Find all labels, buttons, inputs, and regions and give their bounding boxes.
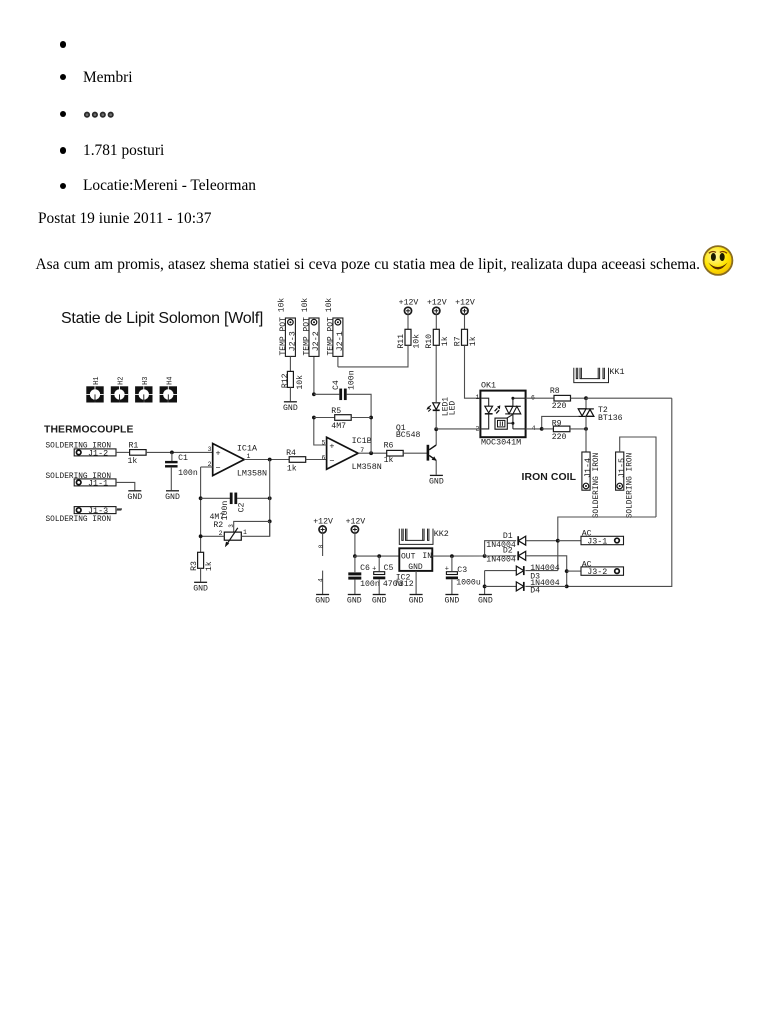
connector J3-1	[581, 536, 624, 544]
wire AC1 to J3-1	[558, 540, 581, 542]
svg-text:GND: GND	[409, 597, 424, 606]
wire D1 D2 left vertical	[485, 541, 517, 556]
svg-text:H2: H2	[118, 376, 126, 384]
ground J1-1	[128, 490, 141, 492]
ground C5	[373, 594, 386, 596]
heatsink KK2	[399, 529, 433, 545]
svg-text:220: 220	[552, 433, 567, 442]
svg-text:D1: D1	[503, 532, 513, 541]
svg-text:SOLDERING IRON: SOLDERING IRON	[593, 452, 601, 518]
wire bus A to AC1 node	[558, 517, 656, 571]
wire R12 to ground	[289, 387, 291, 401]
wire J2-3 to R12	[289, 356, 291, 371]
svg-text:H1: H1	[93, 376, 101, 384]
svg-text:+: +	[216, 448, 221, 458]
svg-text:SOLDERING IRON: SOLDERING IRON	[46, 516, 112, 524]
wire IC1A pin2	[201, 466, 213, 468]
svg-text:R5: R5	[331, 407, 341, 416]
svg-text:BT136: BT136	[598, 414, 623, 423]
wire Q1 collector	[435, 429, 437, 445]
wire T2 top node to right bus	[586, 397, 672, 399]
junction R5 right	[369, 416, 373, 420]
wire J1-1 to ground	[116, 482, 135, 490]
svg-text:R7: R7	[453, 336, 462, 346]
mounting hole H1	[86, 376, 103, 402]
svg-text:1k: 1k	[440, 336, 450, 346]
svg-text:GND: GND	[478, 597, 493, 606]
trimmer R2	[210, 513, 248, 547]
svg-text:3: 3	[208, 446, 212, 453]
junction R2 pin2	[199, 534, 203, 538]
ground Q1	[430, 474, 443, 476]
transistor Q1	[396, 424, 437, 461]
svg-text:10k: 10k	[412, 334, 422, 349]
diode D1	[518, 536, 526, 545]
wire IC1A output	[244, 459, 289, 461]
svg-text:IN: IN	[422, 552, 432, 561]
wire inverting node vertical	[200, 467, 202, 552]
connector J1-3	[74, 507, 116, 514]
capacitor C6	[354, 556, 356, 572]
wire +12V to OUT line	[354, 533, 356, 556]
mounting hole H4	[160, 376, 177, 402]
svg-text:+12V: +12V	[399, 299, 419, 308]
svg-text:1k: 1k	[204, 561, 214, 571]
wire C1 to ground	[170, 467, 172, 490]
svg-text:1000u: 1000u	[456, 579, 481, 588]
ground C3	[445, 594, 458, 596]
optocoupler OK1	[475, 381, 535, 448]
svg-text:7812: 7812	[394, 580, 414, 589]
svg-text:IC1B: IC1B	[352, 436, 372, 446]
svg-text:C3: C3	[457, 566, 467, 575]
svg-text:D4: D4	[530, 587, 540, 596]
svg-text:4M7: 4M7	[331, 422, 346, 431]
svg-text:J2-2: J2-2	[311, 331, 321, 351]
smiley emoticon	[702, 245, 735, 278]
svg-text:SOLDERING IRON: SOLDERING IRON	[627, 452, 635, 518]
svg-text:1k: 1k	[468, 336, 478, 346]
connector J1-5	[616, 452, 624, 490]
resistor R10	[433, 329, 439, 345]
connector J2-2	[309, 318, 319, 356]
ground IC1 power	[316, 594, 329, 596]
wire OK1 pin6 to R8	[526, 397, 554, 399]
wire T2 node to J1-4	[585, 429, 587, 452]
svg-text:GND: GND	[347, 597, 362, 606]
wire +12V to R10	[435, 314, 437, 329]
svg-text:R8: R8	[550, 387, 560, 396]
ground R12	[284, 401, 297, 403]
svg-text:GND: GND	[127, 493, 142, 502]
resistor R12	[287, 371, 293, 387]
svg-text:−: −	[329, 457, 334, 467]
wire T2 gate	[542, 416, 579, 429]
resistor R1	[130, 450, 147, 456]
wire D3 to AC1 vertical	[525, 570, 557, 572]
wire C4 row left	[314, 393, 339, 395]
svg-text:R6: R6	[384, 441, 394, 450]
mounting hole H2	[111, 376, 128, 402]
junction C5 top	[377, 554, 381, 558]
mounting hole H3	[135, 376, 152, 402]
svg-text:R12: R12	[281, 373, 290, 388]
connector J2-3	[285, 318, 295, 356]
svg-text:C1: C1	[178, 454, 188, 463]
svg-text:1k: 1k	[287, 464, 297, 474]
svg-text:R4: R4	[286, 449, 296, 458]
svg-text:10k: 10k	[301, 298, 310, 313]
wire R2 wiper	[234, 521, 270, 532]
svg-text:THERMOCOUPLE: THERMOCOUPLE	[44, 425, 134, 436]
wire LED cathode to collector	[435, 411, 437, 430]
resistor R7	[462, 329, 468, 345]
regulator IC2 7812	[394, 548, 432, 589]
junction AC2 at J3-2	[565, 569, 569, 573]
wire IC1 power pin 8 stub	[322, 533, 324, 556]
svg-text:J2-1: J2-1	[335, 331, 345, 351]
svg-text:+12V: +12V	[313, 517, 333, 526]
svg-text:KK2: KK2	[434, 529, 449, 539]
svg-text:J1-5: J1-5	[617, 458, 627, 478]
svg-text:1k: 1k	[128, 456, 138, 466]
svg-text:100n: 100n	[347, 370, 356, 390]
junction R2 top	[268, 520, 272, 524]
junction C6 top	[353, 554, 357, 558]
svg-text:R11: R11	[397, 334, 406, 349]
svg-text:OK1: OK1	[481, 381, 496, 391]
member pips	[83, 110, 117, 120]
svg-text:1N4004: 1N4004	[486, 555, 516, 564]
ground IC2	[410, 594, 423, 596]
junction IC1B output	[369, 451, 373, 455]
wire IC2 GND pin to ground	[415, 571, 417, 594]
wire +12V to R7	[464, 314, 466, 329]
svg-text:OUT: OUT	[401, 552, 416, 561]
wire C4 row right	[347, 394, 372, 453]
junction D-left top	[483, 554, 487, 558]
wire Q1 emitter to ground	[435, 460, 437, 474]
svg-text:8: 8	[318, 544, 325, 548]
svg-text:10k: 10k	[325, 298, 334, 313]
resistor R9	[553, 426, 570, 432]
wire R1 to IC1A pin3	[146, 451, 213, 453]
wire R7 to OK1 pin1	[465, 345, 481, 398]
svg-text:LM358N: LM358N	[352, 462, 382, 472]
capacitor C5	[378, 556, 380, 571]
wire Q1 collector to OK1 pin2	[436, 428, 480, 430]
wire C2 row left	[201, 497, 230, 499]
svg-text:GND: GND	[283, 404, 298, 413]
svg-text:GND: GND	[193, 585, 208, 594]
svg-text:6: 6	[321, 455, 325, 462]
junction C4 left	[312, 392, 316, 396]
junction R5 left	[312, 416, 316, 420]
wire D3 D4 ground vertical	[484, 571, 486, 594]
svg-text:220: 220	[552, 402, 567, 411]
wire IC1B output	[358, 452, 387, 454]
svg-text:1: 1	[243, 529, 247, 536]
capacitor C1	[165, 461, 178, 463]
wire +12V to R11	[407, 314, 409, 329]
capacitor C2	[230, 493, 233, 505]
ground C1	[166, 490, 179, 492]
svg-text:IC1A: IC1A	[237, 443, 258, 453]
svg-text:GND: GND	[372, 597, 387, 606]
svg-text:IRON COIL: IRON COIL	[522, 472, 577, 483]
svg-text:GND: GND	[408, 563, 423, 572]
wire J1-3 stub	[116, 509, 121, 511]
svg-text:4: 4	[318, 578, 325, 582]
junction Q1 collector node	[434, 427, 438, 431]
svg-text:C6: C6	[360, 564, 370, 573]
junction gate node	[540, 427, 544, 431]
wire IC2 IN line	[432, 555, 484, 557]
diode D3	[516, 566, 524, 575]
wire IC1B pin5	[314, 418, 327, 446]
svg-text:10k: 10k	[295, 375, 305, 390]
wire T2 bottom	[585, 416, 587, 429]
junction T2 top	[584, 396, 588, 400]
wire C6 to ground	[354, 580, 356, 594]
wire D4 to AC2 node	[525, 585, 566, 587]
wire R5 row right	[351, 417, 371, 419]
junction IC1A output	[268, 458, 272, 462]
svg-text:H3: H3	[142, 376, 150, 384]
wire J1-2 to R1	[116, 451, 130, 453]
ground diodes	[479, 594, 492, 596]
junction C1 tap	[170, 451, 174, 455]
svg-text:J1-3: J1-3	[88, 506, 108, 516]
junction C2 right	[268, 496, 272, 500]
wire IC1 power pin 4 stub	[322, 571, 324, 594]
wire right bus B	[567, 398, 672, 586]
svg-text:GND: GND	[429, 478, 444, 487]
wire AC2 to J3-2	[567, 570, 581, 572]
ground R3	[194, 581, 207, 583]
svg-text:D2: D2	[503, 547, 513, 556]
wire R3 to ground	[200, 568, 202, 582]
svg-text:+12V: +12V	[346, 517, 366, 526]
wire C1 top	[171, 452, 173, 461]
svg-text:C2: C2	[237, 503, 246, 513]
wire LED anode to R10	[435, 345, 437, 403]
connector J3-2	[581, 567, 624, 575]
connector J2-1	[333, 318, 343, 356]
svg-text:J3-1: J3-1	[587, 537, 607, 547]
svg-text:MOC3041M: MOC3041M	[481, 438, 521, 448]
svg-text:J1-1: J1-1	[88, 478, 108, 488]
resistor R11	[405, 329, 411, 345]
svg-text:R1: R1	[129, 442, 139, 451]
svg-text:GND: GND	[315, 597, 330, 606]
svg-text:+: +	[372, 565, 376, 573]
resistor R8	[554, 395, 571, 401]
svg-text:1k: 1k	[384, 455, 394, 465]
junction C3 top	[450, 554, 454, 558]
wire D3 left	[485, 570, 517, 572]
svg-text:GND: GND	[165, 493, 180, 502]
wire D2 to AC2 corner	[526, 556, 567, 587]
wire R8 to T2 top node	[571, 397, 587, 399]
svg-text:GND: GND	[445, 597, 460, 606]
svg-text:LM358N: LM358N	[237, 468, 267, 478]
wire R4 to IC1B pin6	[306, 459, 327, 461]
svg-text:R3: R3	[190, 561, 199, 571]
wire C3 to ground	[451, 580, 453, 594]
svg-text:C5: C5	[384, 564, 394, 573]
wire OK1 pin4 to gate node	[526, 428, 542, 430]
junction C2 left	[199, 496, 203, 500]
wire D2 left	[485, 555, 517, 557]
wire R9 to T2 bottom node	[570, 428, 586, 430]
resistor R5	[335, 415, 352, 421]
wire D4 left	[485, 585, 517, 587]
capacitor C3	[451, 556, 453, 571]
svg-text:+: +	[329, 442, 334, 452]
svg-text:5: 5	[321, 440, 325, 447]
wire J2-2 to C4 node	[313, 356, 315, 394]
svg-text:100n: 100n	[360, 580, 380, 589]
wire output feedback vertical	[269, 460, 271, 537]
svg-text:C4: C4	[332, 380, 341, 390]
op-amp IC1B	[321, 436, 381, 472]
svg-text:100n: 100n	[178, 469, 198, 478]
wire C5 to ground	[378, 580, 380, 594]
capacitor C4	[339, 389, 342, 401]
ground C6	[348, 594, 361, 596]
connector J1-1	[74, 479, 116, 486]
svg-text:J2-3: J2-3	[288, 331, 298, 351]
svg-text:R9: R9	[552, 419, 562, 428]
junction AC1	[556, 539, 560, 543]
diode D4	[516, 582, 524, 591]
wire R5 row left	[314, 417, 335, 419]
resistor R3	[198, 552, 204, 568]
svg-text:1: 1	[475, 394, 479, 401]
svg-text:+12V: +12V	[455, 299, 475, 308]
wire C2 row right	[237, 497, 270, 499]
svg-text:J1-4: J1-4	[583, 458, 593, 478]
wire OUT line	[355, 555, 399, 557]
op-amp IC1A	[208, 443, 267, 478]
wire J1-5 to bus A	[620, 437, 656, 517]
svg-text:R10: R10	[425, 334, 434, 349]
wire R11 to J2-1 net	[338, 345, 408, 367]
connector J1-4	[582, 452, 590, 490]
heatsink KK1	[574, 368, 609, 383]
svg-text:Statie de Lipit Solomon [Wolf]: Statie de Lipit Solomon [Wolf]	[61, 310, 263, 327]
junction T2 bottom	[584, 427, 588, 431]
svg-text:−: −	[216, 463, 221, 473]
triac T2	[578, 398, 622, 423]
connector J1-2	[74, 449, 116, 456]
junction D4 left	[483, 585, 487, 589]
resistor R6	[387, 450, 404, 456]
svg-text:R2: R2	[213, 521, 223, 530]
svg-text:+12V: +12V	[427, 299, 447, 308]
svg-text:+: +	[445, 565, 449, 573]
wire R2 pin2	[201, 535, 225, 537]
svg-text:J1-2: J1-2	[88, 448, 108, 458]
svg-text:H4: H4	[166, 376, 174, 384]
diode D2	[518, 551, 526, 560]
svg-text:3: 3	[228, 524, 235, 528]
resistor R4	[289, 457, 306, 463]
svg-text:KK1: KK1	[609, 367, 624, 377]
svg-text:10k: 10k	[278, 298, 287, 313]
bullet list	[60, 41, 66, 47]
wire R6 to Q1 base	[403, 452, 427, 454]
wire J2-1 corner	[337, 356, 339, 367]
wire D1 to AC1 junction	[526, 540, 558, 542]
wire R2 pin1	[241, 521, 269, 536]
svg-text:BC548: BC548	[396, 431, 421, 440]
junction AC2 bottom	[565, 585, 569, 589]
LED LED1	[426, 397, 457, 416]
svg-text:J3-2: J3-2	[587, 567, 607, 577]
svg-text:LED: LED	[448, 401, 457, 416]
wire gate node to R9	[542, 428, 554, 430]
